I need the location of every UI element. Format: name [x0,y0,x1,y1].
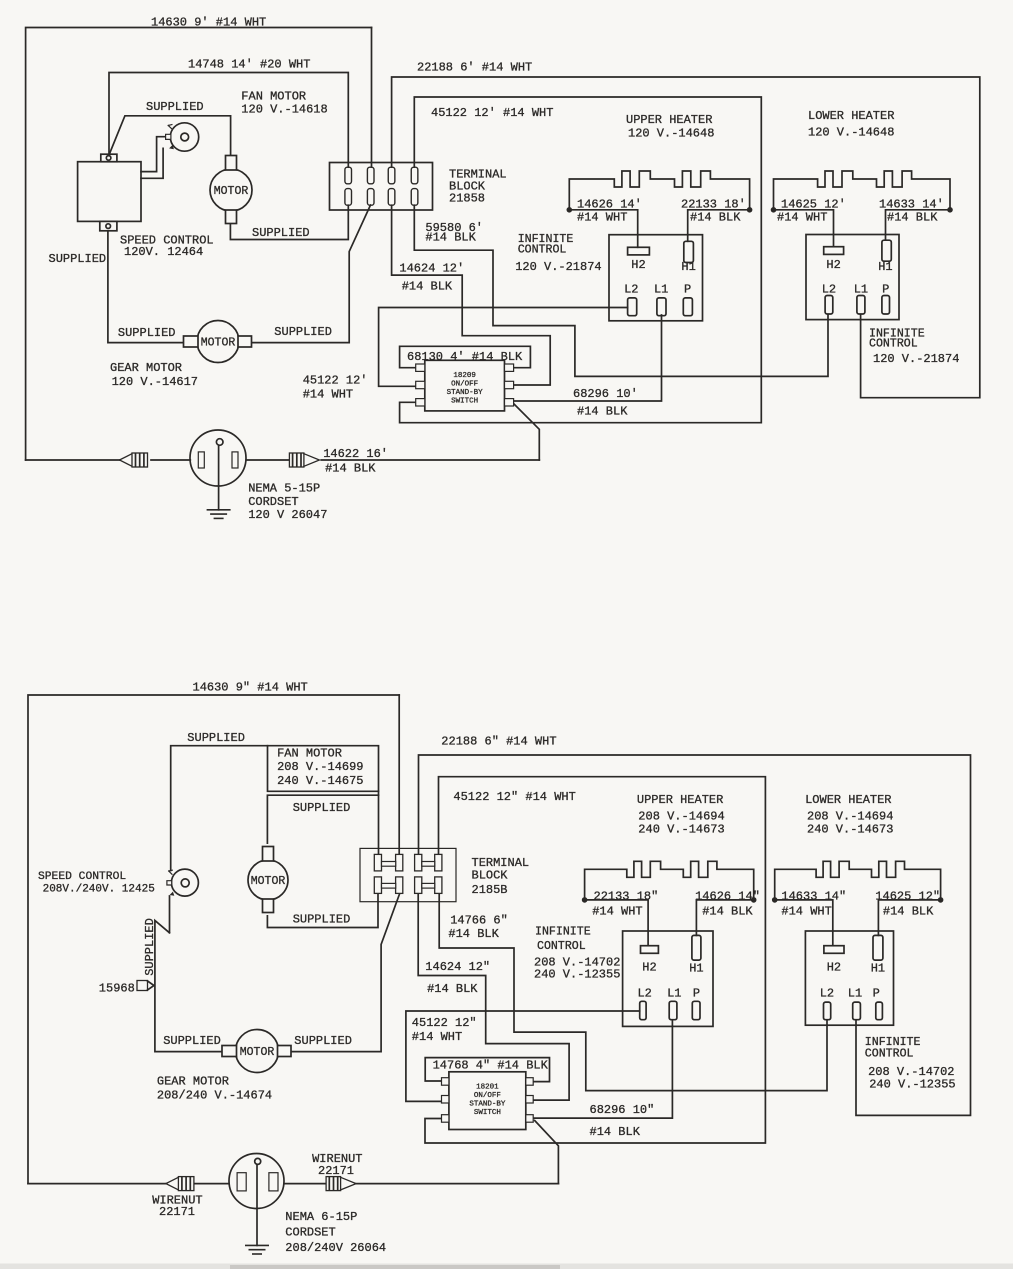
svg-text:STAND-BY: STAND-BY [447,389,484,397]
svg-text:NEMA 6-15P: NEMA 6-15P [285,1210,357,1224]
svg-text:#14 BLK: #14 BLK [577,405,628,419]
svg-text:120 V.-14618: 120 V.-14618 [241,103,327,117]
svg-text:H1: H1 [871,962,885,976]
svg-text:22133 18': 22133 18' [681,198,746,212]
svg-text:P: P [693,987,700,1001]
svg-text:120 V 26047: 120 V 26047 [248,508,327,522]
svg-text:14624 12": 14624 12" [425,960,490,974]
svg-text:MOTOR: MOTOR [240,1046,275,1059]
svg-text:240 V.-12355: 240 V.-12355 [869,1078,955,1092]
svg-text:#14 BLK: #14 BLK [590,1125,641,1139]
svg-text:SUPPLIED: SUPPLIED [143,918,157,976]
svg-text:SUPPLIED: SUPPLIED [187,731,245,745]
svg-text:#14 BLK: #14 BLK [427,982,478,996]
svg-text:L2: L2 [820,987,834,1001]
svg-text:P: P [873,987,880,1001]
svg-text:120 V.-14648: 120 V.-14648 [808,126,894,140]
svg-text:14624 12': 14624 12' [399,262,464,276]
svg-text:240 V.-14673: 240 V.-14673 [807,823,893,837]
svg-text:#14 WHT: #14 WHT [303,388,353,402]
svg-text:MOTOR: MOTOR [214,185,249,198]
svg-text:14626 14": 14626 14" [695,890,760,904]
svg-text:14633 14': 14633 14' [879,198,944,212]
svg-text:P: P [882,283,889,297]
svg-text:#14 WHT: #14 WHT [592,905,642,919]
svg-text:14633 14": 14633 14" [781,890,846,904]
svg-text:ON/OFF: ON/OFF [451,381,478,389]
svg-text:120V. 12464: 120V. 12464 [124,245,203,259]
svg-text:SUPPLIED: SUPPLIED [252,226,310,240]
svg-text:#14 BLK: #14 BLK [883,905,934,919]
svg-text:240 V.-12355: 240 V.-12355 [534,968,620,982]
svg-text:45122 12": 45122 12" [412,1016,477,1030]
svg-text:L1: L1 [654,283,668,297]
svg-text:H1: H1 [681,260,695,274]
svg-text:FAN MOTOR: FAN MOTOR [277,747,342,761]
svg-text:22188 6' #14 WHT: 22188 6' #14 WHT [417,61,532,75]
svg-text:SUPPLIED: SUPPLIED [293,913,351,927]
svg-text:L1: L1 [848,987,862,1001]
svg-text:2185B: 2185B [472,883,508,897]
svg-text:45122 12" #14 WHT: 45122 12" #14 WHT [453,790,575,804]
svg-text:14625 12": 14625 12" [875,890,940,904]
svg-text:68296 10': 68296 10' [573,387,638,401]
svg-text:L1: L1 [667,987,681,1001]
svg-text:SUPPLIED: SUPPLIED [274,325,332,339]
svg-text:240 V.-14673: 240 V.-14673 [638,823,724,837]
svg-text:SUPPLIED: SUPPLIED [293,801,351,815]
svg-text:14748 14' #20 WHT: 14748 14' #20 WHT [188,58,310,72]
svg-text:#14 BLK: #14 BLK [690,211,741,225]
svg-text:21858: 21858 [449,192,485,206]
svg-text:L2: L2 [822,283,836,297]
svg-text:CONTROL: CONTROL [869,338,918,351]
svg-text:H1: H1 [878,260,892,274]
svg-text:45122 12': 45122 12' [303,374,368,388]
svg-text:SWITCH: SWITCH [451,398,478,406]
svg-text:BLOCK: BLOCK [472,869,509,883]
svg-text:#14 BLK: #14 BLK [887,211,938,225]
svg-text:#14 BLK: #14 BLK [425,231,476,245]
svg-text:208/240V 26064: 208/240V 26064 [285,1241,386,1255]
svg-text:UPPER HEATER: UPPER HEATER [626,113,712,127]
svg-text:H1: H1 [689,962,703,976]
svg-text:14626 14': 14626 14' [577,198,642,212]
svg-text:CORDSET: CORDSET [285,1226,335,1240]
svg-text:18201: 18201 [476,1084,499,1092]
svg-text:P: P [684,283,691,297]
svg-text:#14 BLK: #14 BLK [448,927,499,941]
svg-text:SUPPLIED: SUPPLIED [146,100,204,114]
svg-text:CORDSET: CORDSET [248,495,298,509]
svg-text:L1: L1 [854,283,868,297]
svg-text:#14 BLK: #14 BLK [325,462,376,476]
svg-text:SUPPLIED: SUPPLIED [294,1034,352,1048]
svg-text:SUPPLIED: SUPPLIED [118,326,176,340]
svg-text:#14 BLK: #14 BLK [402,280,453,294]
svg-text:14768 4" #14 BLK: 14768 4" #14 BLK [433,1059,549,1073]
svg-text:22188 6" #14 WHT: 22188 6" #14 WHT [441,735,556,749]
svg-text:L2: L2 [624,283,638,297]
svg-text:SWITCH: SWITCH [474,1109,501,1117]
svg-text:22171: 22171 [318,1164,354,1178]
svg-text:208 V.-14694: 208 V.-14694 [807,810,893,824]
svg-text:CONTROL: CONTROL [518,244,567,257]
svg-text:SPEED CONTROL: SPEED CONTROL [38,871,126,883]
svg-text:120 V.-14617: 120 V.-14617 [112,375,198,389]
svg-text:14630 9' #14 WHT: 14630 9' #14 WHT [151,16,266,30]
svg-text:MOTOR: MOTOR [201,337,236,350]
svg-text:ON/OFF: ON/OFF [474,1092,501,1100]
svg-text:208 V.-14699: 208 V.-14699 [277,760,363,774]
svg-text:NEMA 5-15P: NEMA 5-15P [248,482,320,496]
svg-text:#14 WHT: #14 WHT [412,1030,462,1044]
svg-text:SUPPLIED: SUPPLIED [49,252,107,266]
svg-text:UPPER HEATER: UPPER HEATER [637,793,723,807]
svg-text:14622 16': 14622 16' [323,447,388,461]
svg-text:#14 BLK: #14 BLK [702,905,753,919]
svg-text:45122 12' #14 WHT: 45122 12' #14 WHT [431,106,553,120]
svg-text:GEAR MOTOR: GEAR MOTOR [157,1075,229,1089]
svg-text:LOWER HEATER: LOWER HEATER [808,109,894,123]
svg-text:H2: H2 [827,961,841,975]
svg-text:120 V.-21874: 120 V.-21874 [515,260,601,274]
svg-text:18209: 18209 [453,372,476,380]
svg-text:22171: 22171 [159,1205,195,1219]
svg-text:14625 12': 14625 12' [781,198,846,212]
svg-text:#14 WHT: #14 WHT [777,211,827,225]
svg-text:68296 10": 68296 10" [590,1103,655,1117]
svg-text:208V./240V. 12425: 208V./240V. 12425 [43,884,155,896]
svg-text:STAND-BY: STAND-BY [469,1101,506,1109]
svg-text:#14 WHT: #14 WHT [781,905,831,919]
svg-text:FAN MOTOR: FAN MOTOR [241,90,306,104]
svg-text:LOWER HEATER: LOWER HEATER [805,793,891,807]
svg-text:L2: L2 [637,987,651,1001]
svg-text:120 V.-14648: 120 V.-14648 [628,127,714,141]
svg-text:120 V.-21874: 120 V.-21874 [873,352,959,366]
svg-text:H2: H2 [631,258,645,272]
svg-text:CONTROL: CONTROL [865,1048,914,1061]
svg-text:14630 9" #14 WHT: 14630 9" #14 WHT [193,681,308,695]
svg-text:CONTROL: CONTROL [537,940,586,953]
svg-text:H2: H2 [642,961,656,975]
svg-text:208 V.-14694: 208 V.-14694 [638,810,724,824]
svg-text:240 V.-14675: 240 V.-14675 [277,774,363,788]
svg-text:GEAR MOTOR: GEAR MOTOR [110,361,182,375]
svg-text:14766 6": 14766 6" [450,914,508,928]
svg-text:H2: H2 [826,258,840,272]
svg-text:SUPPLIED: SUPPLIED [163,1034,221,1048]
svg-text:MOTOR: MOTOR [251,875,286,888]
svg-text:#14 WHT: #14 WHT [577,211,627,225]
svg-text:208/240 V.-14674: 208/240 V.-14674 [157,1089,272,1103]
svg-text:68130 4' #14 BLK: 68130 4' #14 BLK [407,350,523,364]
svg-text:15968: 15968 [99,982,135,996]
svg-text:INFINITE: INFINITE [535,926,591,939]
svg-text:22133 18": 22133 18" [594,890,659,904]
